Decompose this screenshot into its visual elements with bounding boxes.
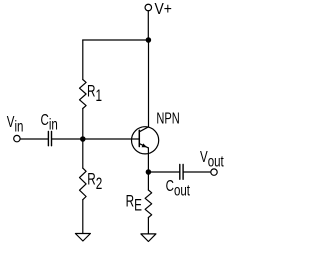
wire Vin to Cin (20, 138, 48, 140)
wire Cin to node A (52, 138, 83, 140)
terminal Vout (211, 169, 217, 175)
wire RE top (147, 172, 149, 190)
svg-text:Vout: Vout (200, 149, 224, 170)
transistor Q1 circle (132, 127, 159, 154)
transistor Q1 emitter diagonal (139, 144, 148, 148)
transistor Q1 emitter arrow (142, 143, 147, 147)
resistor R1 (80, 80, 87, 109)
svg-text:R1: R1 (87, 83, 102, 106)
junction top (146, 37, 152, 43)
wire R1 bottom (82, 109, 84, 140)
svg-text:Cout: Cout (166, 178, 191, 199)
transistor Q1 collector diagonal (139, 127, 148, 132)
ground below RE (141, 234, 156, 242)
wire R1 top (82, 40, 84, 80)
capacitor Cin (48, 131, 51, 145)
wire R2 bottom (82, 200, 84, 234)
wire Cout to Vout (184, 171, 211, 173)
terminal Vin (14, 135, 20, 141)
junction emitter (146, 169, 152, 175)
capacitor Cout (180, 164, 183, 179)
svg-text:R2: R2 (87, 171, 102, 194)
wire emitter vertical (147, 148, 149, 172)
wire top horizontal (83, 39, 149, 41)
svg-text:V+: V+ (155, 2, 172, 19)
node A junction (80, 136, 86, 142)
wire RE bottom (147, 218, 149, 234)
transistor Q1 base bar (138, 130, 140, 146)
svg-text:Cin: Cin (41, 111, 58, 133)
svg-text:NPN: NPN (156, 110, 179, 127)
wire emitter to Cout (148, 171, 179, 173)
svg-text:Vin: Vin (7, 113, 24, 135)
resistor RE (145, 190, 152, 218)
svg-text:RE: RE (126, 193, 142, 215)
resistor R2 (80, 168, 87, 200)
ground below R2 (75, 234, 90, 242)
wire base (83, 138, 139, 140)
wire collector vertical (148, 40, 150, 127)
wire V+ to top junction (147, 11, 149, 40)
terminal V+ (145, 4, 152, 11)
wire R2 top (82, 139, 84, 168)
